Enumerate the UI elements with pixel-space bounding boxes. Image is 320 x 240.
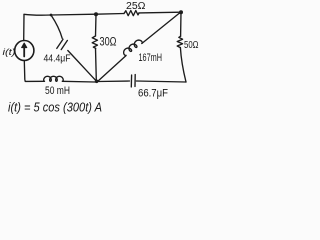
capacitor 66.7uF plate	[134, 75, 136, 87]
wire diagonal inductor lower	[99, 56, 127, 81]
node dot top middle	[94, 12, 98, 16]
wire	[24, 61, 44, 82]
node dot bottom middle	[95, 80, 99, 84]
wire left vertical	[23, 15, 25, 41]
node dot diagonal top	[50, 14, 53, 17]
svg-text:167mH: 167mH	[139, 52, 163, 64]
resistor 50ohm	[177, 36, 182, 47]
wire	[139, 11, 181, 14]
resistor 25ohm	[124, 11, 139, 16]
wire right vertical upper	[180, 12, 182, 36]
wire diagonal inductor upper	[142, 13, 180, 44]
node dot top right	[179, 10, 183, 14]
current source i(t)	[15, 41, 34, 61]
svg-text:44.4μF: 44.4μF	[44, 53, 71, 65]
inductor 167mH	[124, 40, 143, 55]
wire diagonal capacitor upper	[51, 15, 62, 38]
wire middle vertical upper	[95, 14, 98, 36]
wire	[136, 81, 186, 82]
svg-text:25Ω: 25Ω	[126, 1, 146, 12]
svg-text:30Ω: 30Ω	[100, 37, 117, 49]
capacitor 44.4uF plate	[57, 39, 63, 48]
wire diagonal capacitor lower	[68, 51, 97, 82]
capacitor 66.7uF plate	[130, 75, 132, 87]
svg-text:i(t): i(t)	[3, 47, 16, 57]
svg-text:66.7μF: 66.7μF	[138, 88, 168, 100]
svg-text:50 mH: 50 mH	[45, 85, 70, 97]
wire middle vertical lower	[95, 48, 98, 80]
wire right vertical lower	[180, 48, 186, 82]
arrow	[23, 46, 25, 57]
wire bottom right	[98, 80, 129, 83]
resistor 30ohm	[92, 36, 97, 48]
capacitor 44.4uF plate	[61, 40, 67, 49]
inductor 50mH	[44, 76, 64, 81]
svg-text:50Ω: 50Ω	[184, 39, 199, 51]
wire top	[24, 14, 124, 16]
wire bottom left	[62, 80, 95, 83]
svg-text:i(t) = 5 cos (300t) A: i(t) = 5 cos (300t) A	[8, 101, 102, 115]
